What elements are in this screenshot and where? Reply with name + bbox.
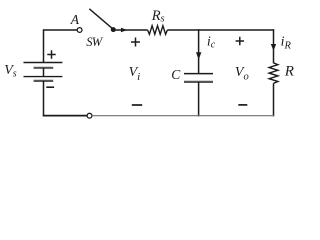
- minus sign Vi: [132, 104, 142, 106]
- capacitor C bottom plate: [184, 81, 213, 83]
- svg-text:SW: SW: [86, 35, 103, 49]
- wire Rs to right corner: [167, 29, 274, 31]
- battery Vs plus sign: [47, 50, 55, 58]
- battery Vs plate 3 long: [24, 76, 63, 78]
- battery Vs inter-cell wire: [43, 68, 45, 77]
- wire capacitor branch vertical: [198, 29, 200, 73]
- current direction arrowhead on top wire: [121, 28, 128, 32]
- wire right vertical lower: [273, 83, 275, 116]
- svg-text:C: C: [171, 67, 181, 82]
- current iR arrowhead: [271, 44, 276, 51]
- battery Vs plate 4 short: [34, 80, 54, 82]
- resistor R vertical zigzag: [269, 63, 278, 83]
- svg-text:A: A: [70, 12, 80, 27]
- battery Vs minus sign: [46, 86, 54, 88]
- svg-text:iR: iR: [281, 34, 292, 51]
- current ic arrowhead: [196, 52, 201, 59]
- svg-text:ic: ic: [207, 35, 216, 51]
- node A terminal circle: [77, 28, 82, 33]
- minus sign Vo: [238, 104, 247, 106]
- plus sign Vi: [131, 38, 140, 47]
- bottom node terminal circle: [87, 113, 92, 118]
- wire switch to Rs: [113, 29, 147, 31]
- capacitor C top plate: [184, 73, 213, 75]
- svg-text:Vo: Vo: [235, 65, 249, 82]
- battery Vs plate 2 short: [34, 67, 54, 69]
- svg-text:Vs: Vs: [4, 63, 17, 79]
- svg-text:R: R: [284, 64, 294, 80]
- svg-text:Vi: Vi: [129, 65, 141, 83]
- wire right vertical upper: [273, 29, 275, 63]
- wire bottom right segment: [92, 115, 274, 117]
- plus sign Vo: [236, 37, 244, 45]
- switch SW contact dot: [111, 27, 116, 32]
- wire top-left horizontal: [44, 29, 78, 31]
- battery Vs plate 1 long: [24, 62, 63, 64]
- wire left vertical lower: [43, 81, 45, 117]
- wire bottom left segment: [43, 115, 87, 117]
- resistor Rs zigzag: [148, 26, 168, 35]
- switch SW blade: [89, 9, 113, 30]
- svg-text:Rs: Rs: [151, 8, 165, 25]
- wire capacitor to bottom: [198, 82, 200, 117]
- wire left vertical upper: [43, 29, 45, 62]
